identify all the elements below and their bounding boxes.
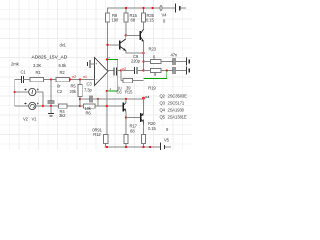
svg-text:20k: 20k: [70, 89, 77, 94]
wire n2 to C9: [121, 70, 134, 72]
svg-text:3.3K: 3.3K: [33, 63, 41, 68]
green wire V+: [107, 60, 118, 92]
svg-text:V1: V1: [32, 117, 38, 122]
svg-text:2SC3503E: 2SC3503E: [168, 94, 188, 99]
svg-text:dx1: dx1: [60, 43, 67, 48]
junction dots top rail: [125, 7, 127, 9]
transistor list: [160, 94, 188, 120]
resistor R5: [70, 80, 83, 107]
ground under C2: [48, 106, 54, 116]
wire Q5 lower green: [143, 120, 145, 125]
wire Q3 emitter down: [143, 41, 145, 70]
wire Q2 collector to R15: [125, 35, 127, 39]
svg-text:out: out: [145, 95, 150, 99]
wire bottom row: [43, 105, 59, 107]
ground row1: [186, 58, 189, 66]
svg-text:AD825_15V_AD: AD825_15V_AD: [32, 55, 68, 61]
battery V5: [160, 127, 169, 150]
svg-text:C2: C2: [57, 89, 63, 94]
svg-text:V2: V2: [23, 117, 29, 122]
capacitor C9: [131, 54, 144, 74]
resistor R4: [59, 104, 81, 118]
green wire feedback right: [144, 71, 167, 79]
resistor R2: [56, 63, 95, 82]
wire Q2 base: [108, 44, 120, 46]
svg-text:0.15: 0.15: [148, 126, 156, 131]
transistor Q4 bottom-left PNP: [123, 102, 126, 111]
svg-text:220p: 220p: [131, 58, 141, 63]
capacitor C3: [80, 82, 98, 103]
svg-text:0.15: 0.15: [146, 18, 154, 23]
wire sources right vertical: [42, 92, 44, 106]
transistor Q5 bottom-right PNP: [141, 113, 144, 122]
svg-text:190: 190: [112, 18, 119, 23]
svg-text:47n: 47n: [171, 52, 178, 57]
capacitor C2: [48, 80, 63, 107]
probe ellipse on V+ rail: [160, 6, 162, 11]
resistor row2 (9): [144, 68, 173, 77]
resistor R23 row: [142, 47, 172, 64]
wire bottom rail: [104, 146, 160, 148]
svg-text:n1: n1: [83, 75, 87, 79]
svg-text:R5: R5: [71, 83, 77, 88]
svg-text:V5: V5: [164, 138, 170, 143]
resistor R15 top: [124, 8, 138, 35]
svg-text:Q3: Q3: [160, 101, 166, 106]
svg-text:−: −: [96, 78, 98, 82]
svg-text:3k2: 3k2: [59, 113, 66, 118]
svg-text:R12: R12: [93, 132, 101, 137]
svg-text:2SC5171: 2SC5171: [168, 101, 185, 106]
resistor R35: [141, 8, 154, 29]
svg-text:Q5: Q5: [160, 115, 166, 120]
svg-text:Q2: Q2: [160, 94, 166, 99]
svg-text:7.3p: 7.3p: [84, 88, 92, 93]
node n2: [120, 69, 122, 71]
svg-text:C1: C1: [21, 69, 27, 74]
resistor R20: [141, 121, 156, 147]
resistor R6: [80, 99, 123, 116]
battery V4: [162, 3, 180, 23]
capacitor C6 series: [114, 67, 122, 94]
svg-text:Q4: Q4: [160, 108, 166, 113]
resistor R9: [105, 13, 119, 59]
opamp V+ pin: [107, 60, 109, 72]
wire column V- left: [106, 91, 108, 135]
wire top rail: [108, 8, 187, 13]
resistor R17: [124, 124, 138, 147]
svg-text:R1: R1: [36, 70, 42, 75]
svg-text:2mk: 2mk: [11, 61, 20, 66]
svg-text:R19: R19: [148, 86, 156, 91]
wire Q2 emitter down then right: [126, 51, 144, 53]
capacitor row2: [173, 67, 186, 74]
svg-text:+: +: [95, 62, 97, 66]
svg-text:R15: R15: [125, 89, 133, 94]
ground row2: [186, 67, 189, 75]
wire Q5 base: [126, 117, 140, 119]
svg-text:6.8k: 6.8k: [59, 63, 67, 68]
wire opamp output: [108, 70, 114, 72]
opamp U1 AD825: [32, 43, 109, 86]
svg-text:R2: R2: [60, 70, 66, 75]
wire Q4 lower down: [125, 111, 127, 134]
wire Q5 upper to out: [143, 98, 145, 113]
input wire: [15, 79, 21, 81]
resistor R1: [30, 63, 56, 82]
svg-text:n2: n2: [72, 75, 76, 79]
svg-text:C3: C3: [87, 82, 93, 87]
input port cap to +in: [88, 60, 95, 68]
opamp V- pin: [106, 71, 108, 91]
svg-text:R6: R6: [86, 111, 92, 116]
wire Q4 upper to out: [125, 99, 127, 103]
svg-text:V4: V4: [162, 13, 168, 18]
svg-text:2SA1381E: 2SA1381E: [168, 115, 187, 120]
transistor Q3 top-right NPN: [140, 29, 144, 41]
svg-text:2SA1930: 2SA1930: [168, 108, 185, 113]
junction dot V- pin: [106, 90, 108, 92]
resistor R18: [92, 127, 108, 147]
svg-text:R23: R23: [149, 47, 157, 52]
source V1: [15, 102, 43, 121]
svg-text:C6: C6: [117, 89, 123, 94]
source V2: [14, 80, 43, 122]
wire Q3 base from Q2 collector: [126, 34, 140, 36]
capacitor 47n: [171, 52, 186, 65]
wire out row: [98, 98, 144, 100]
transistor Q2 top-left NPN: [120, 39, 126, 51]
resistor R15 39: [121, 71, 144, 95]
capacitor C1: [11, 61, 30, 83]
